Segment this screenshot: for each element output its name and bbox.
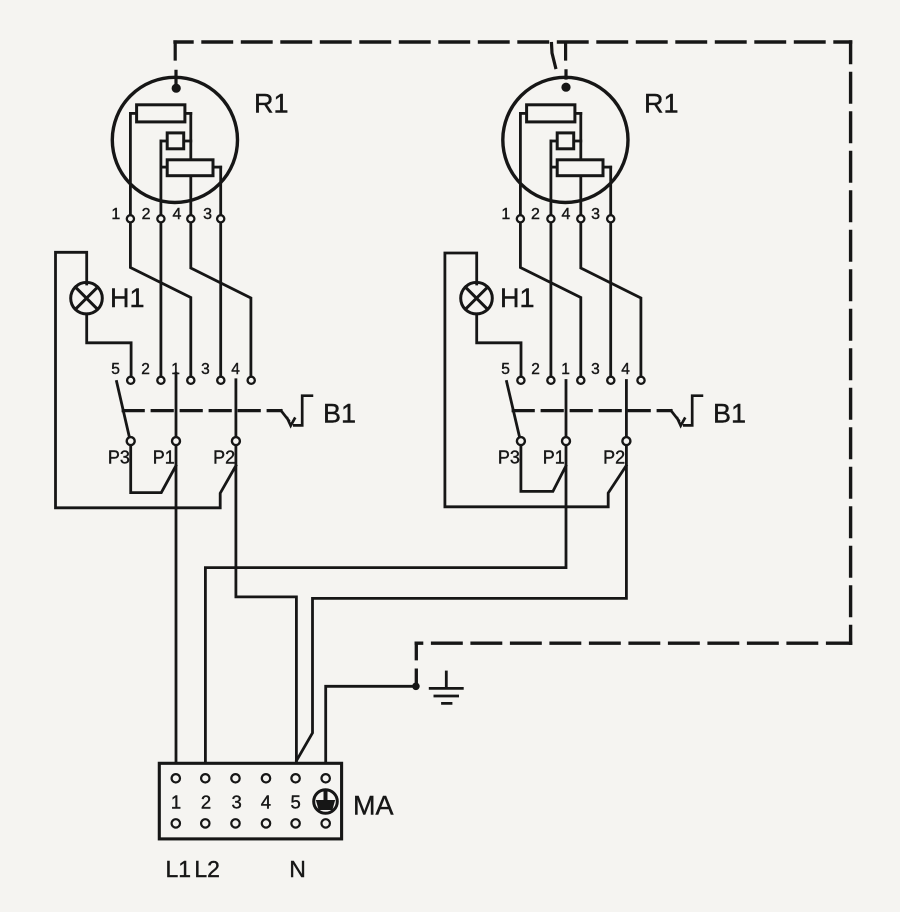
lamp H1 left circle bbox=[71, 282, 103, 314]
svg-text:2: 2 bbox=[531, 361, 540, 378]
svg-text:5: 5 bbox=[291, 792, 301, 813]
switch pin circle 5 left bbox=[127, 377, 134, 384]
switch pin circle 1 right bbox=[577, 377, 584, 384]
wire lead right of resistor R1c bbox=[213, 166, 221, 169]
terminal block MA outline bbox=[159, 763, 341, 839]
lamp H1 left cross bbox=[75, 287, 97, 309]
svg-text:4: 4 bbox=[562, 206, 571, 223]
svg-text:R1: R1 bbox=[254, 88, 289, 118]
svg-text:4: 4 bbox=[621, 361, 630, 378]
wire lamp H1 left bottom to switch pin 5 bbox=[87, 314, 131, 377]
svg-text:H1: H1 bbox=[500, 283, 535, 313]
dashed supply line right side bbox=[849, 42, 852, 643]
wire lead right of resistor R1b bbox=[184, 140, 191, 143]
wire lead right of resistor R1b right bbox=[574, 140, 581, 143]
pin circle 4 left hotplate bbox=[187, 215, 194, 222]
contact P3 right bbox=[517, 437, 525, 445]
switch pin circle 4 left bbox=[248, 377, 255, 384]
svg-text:1: 1 bbox=[501, 206, 510, 223]
earth clamp symbol on terminal block bbox=[314, 790, 338, 814]
wire P2 right down across and kink to terminal 5 bbox=[297, 381, 627, 761]
svg-text:4: 4 bbox=[172, 206, 181, 223]
resistor R1b (small element of right hotplate) bbox=[557, 133, 574, 149]
contact P2 left bbox=[232, 437, 240, 445]
wire lead left of resistor R1c bbox=[161, 166, 167, 169]
ground symbol stem bbox=[445, 672, 448, 688]
wire pin4 of right element to switch contact 4 bbox=[581, 113, 641, 376]
svg-text:2: 2 bbox=[141, 361, 150, 378]
svg-text:1: 1 bbox=[171, 361, 180, 378]
contact P1 left bbox=[172, 437, 180, 445]
pin circle 2 left hotplate bbox=[157, 215, 164, 222]
wire lead right of resistor R1a right bbox=[575, 112, 581, 115]
switch pin circle 1 left bbox=[187, 377, 194, 384]
svg-text:P1: P1 bbox=[153, 447, 175, 467]
svg-text:MA: MA bbox=[353, 790, 394, 820]
lamp H1 right cross bbox=[465, 287, 487, 309]
svg-text:N: N bbox=[289, 856, 306, 882]
ground symbol bars bbox=[430, 688, 462, 703]
svg-text:2: 2 bbox=[142, 206, 151, 223]
resistor R1c (bottom element of left hotplate) bbox=[167, 160, 213, 176]
svg-text:P2: P2 bbox=[213, 447, 235, 467]
svg-text:1: 1 bbox=[111, 206, 120, 223]
wire P1 left down to terminal 1 bbox=[175, 373, 178, 763]
top pin dot of right hotplate bbox=[561, 83, 570, 92]
wire pin2 of right element to switch contact 2 bbox=[550, 141, 553, 376]
dashed supply line top bbox=[175, 40, 851, 43]
dashed feed stub to right hotplate top pin bbox=[552, 44, 567, 79]
dashed actuator line B1 left bbox=[123, 409, 281, 412]
switch lever pin5 to P3 right bbox=[507, 382, 520, 437]
svg-text:4: 4 bbox=[231, 361, 240, 378]
svg-text:3: 3 bbox=[591, 206, 600, 223]
wire lamp H1 right bottom to switch pin 5 bbox=[477, 314, 521, 377]
dashed feed stub to left hotplate top pin bbox=[174, 42, 178, 84]
pin circle 1 left hotplate bbox=[127, 215, 134, 222]
svg-text:P3: P3 bbox=[498, 447, 520, 467]
dashed supply line bottom bbox=[416, 642, 850, 645]
terminal bottom row circles bbox=[172, 819, 330, 827]
contact P2 right bbox=[622, 437, 630, 445]
svg-text:4: 4 bbox=[261, 792, 271, 813]
wire lead left of resistor R1a bbox=[130, 112, 136, 115]
svg-text:2: 2 bbox=[201, 792, 211, 813]
switch pin circle 3 left bbox=[217, 377, 224, 384]
svg-text:P1: P1 bbox=[543, 447, 565, 467]
switch pin circle 3 right bbox=[607, 377, 614, 384]
terminal top row circles bbox=[172, 774, 330, 782]
svg-text:3: 3 bbox=[591, 361, 600, 378]
wire P3 right loop to P1 line bbox=[521, 445, 566, 491]
thermostat symbol B1 left bbox=[281, 396, 312, 426]
switch pin circle 5 right bbox=[517, 377, 524, 384]
svg-text:L2: L2 bbox=[194, 856, 220, 882]
wire pin1 of right element to switch contact 1 bbox=[520, 113, 580, 376]
wire lamp H1 right: feed, down left side, bottom rail, stub to P2 lever bbox=[445, 253, 626, 507]
svg-text:2: 2 bbox=[531, 206, 540, 223]
dashed actuator line B1 right bbox=[513, 409, 671, 412]
resistor R1a (top element of right hotplate) bbox=[527, 105, 575, 122]
wire pin3 of left element to switch contact 3 bbox=[219, 167, 222, 376]
pin circle 3 left hotplate bbox=[217, 215, 224, 222]
earth node dot bbox=[412, 683, 420, 691]
svg-text:B1: B1 bbox=[713, 399, 746, 429]
wire pin2 of left element to switch contact 2 bbox=[159, 141, 162, 376]
wire lead right of resistor R1a bbox=[185, 112, 191, 115]
svg-text:1: 1 bbox=[171, 792, 181, 813]
wire lead left of resistor R1c right bbox=[551, 166, 557, 169]
dashed drop to earth node bbox=[415, 643, 418, 682]
svg-text:5: 5 bbox=[501, 361, 510, 378]
svg-text:3: 3 bbox=[201, 361, 210, 378]
switch lever pin5 to P3 left bbox=[117, 382, 130, 437]
lamp H1 right circle bbox=[461, 282, 493, 314]
wire lead left of resistor R1a right bbox=[520, 112, 526, 115]
pin circle 1 right hotplate bbox=[517, 215, 524, 222]
top pin dot of left hotplate bbox=[172, 84, 181, 93]
pin circle 3 right hotplate bbox=[607, 215, 614, 222]
wire lead right of resistor R1c right bbox=[603, 166, 611, 169]
wire P2 left down and right to terminal 5 bbox=[236, 380, 297, 764]
svg-text:5: 5 bbox=[111, 361, 120, 378]
wire pin4 of left element to switch contact 4 bbox=[191, 113, 251, 376]
wire lamp H1 left: feed, down left side, bottom rail, stub to P2 lever bbox=[56, 252, 236, 507]
wire pin3 of right element to switch contact 3 bbox=[609, 167, 612, 376]
svg-text:3: 3 bbox=[231, 792, 241, 813]
svg-text:L1: L1 bbox=[166, 856, 192, 882]
svg-text:P2: P2 bbox=[603, 447, 625, 467]
svg-text:R1: R1 bbox=[644, 88, 679, 118]
contact P1 right bbox=[562, 437, 570, 445]
resistor R1c (bottom element of right hotplate) bbox=[557, 160, 603, 176]
pin circle 2 right hotplate bbox=[547, 215, 554, 222]
switch pin circle 2 left bbox=[157, 377, 164, 384]
contact P3 left bbox=[127, 437, 135, 445]
svg-text:1: 1 bbox=[561, 361, 570, 378]
wire P3 left loop to P1 line bbox=[131, 445, 176, 492]
wire lead left of resistor R1b bbox=[161, 140, 167, 143]
switch pin circle 4 right bbox=[637, 377, 644, 384]
pin circle 4 right hotplate bbox=[577, 215, 584, 222]
resistor R1a (top element of left hotplate) bbox=[137, 105, 185, 122]
wire earth node to terminal 6 bbox=[326, 686, 416, 763]
wire pin1 of left element to switch contact 1 bbox=[130, 113, 190, 376]
wire P1 right down across to terminal 2 bbox=[205, 381, 566, 764]
hotplate R1 left outline circle bbox=[112, 77, 237, 202]
svg-text:H1: H1 bbox=[110, 283, 145, 313]
switch pin circle 2 right bbox=[547, 377, 554, 384]
wire lead left of resistor R1b right bbox=[551, 140, 557, 143]
hotplate R1 right outline circle bbox=[503, 77, 628, 202]
thermostat symbol B1 right bbox=[671, 396, 702, 426]
resistor R1b (small element of left hotplate) bbox=[167, 133, 184, 149]
svg-text:P3: P3 bbox=[108, 447, 130, 467]
svg-text:3: 3 bbox=[203, 206, 212, 223]
svg-text:B1: B1 bbox=[323, 399, 356, 429]
